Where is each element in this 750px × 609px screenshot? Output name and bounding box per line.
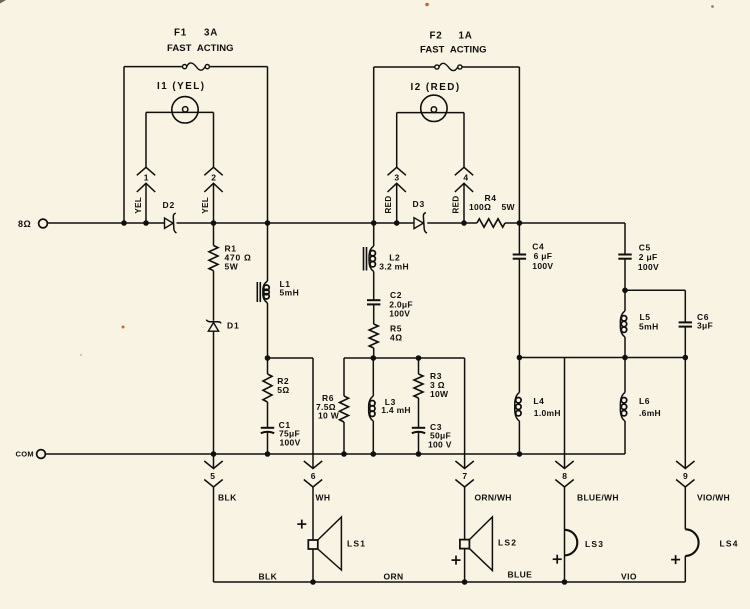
connector pin 2 lower chevron (204, 183, 222, 192)
resistor R6 designator (322, 393, 334, 403)
resistor R3 (414, 374, 423, 398)
svg-text:1.0mH: 1.0mH (534, 408, 561, 418)
wire tap1 upper (145, 112, 147, 167)
svg-text:YEL: YEL (134, 197, 143, 214)
svg-text:5W: 5W (502, 202, 516, 212)
wire L2 to C2 (373, 272, 375, 301)
wire tap7 to LS2 (464, 487, 466, 540)
connector pin 8 lower chevron (555, 480, 573, 488)
wire tap7 vertical (464, 358, 466, 469)
wire label BLUE bottom (508, 570, 533, 580)
connector pin 2 upper chevron (204, 167, 222, 175)
fuse F1 (183, 63, 210, 70)
wire label ORN/WH (475, 493, 512, 503)
inductor L5 designator (640, 312, 651, 322)
svg-text:LS2: LS2 (498, 538, 517, 548)
svg-text:L6: L6 (639, 396, 650, 406)
wire R3 to C3 (418, 398, 420, 428)
capacitor C1 value (279, 429, 301, 448)
inductor L5 (620, 311, 626, 337)
junction COM x418 (416, 451, 422, 457)
svg-text:1A: 1A (459, 31, 473, 42)
wire C6 to node (684, 327, 686, 358)
svg-text:3.2 mH: 3.2 mH (379, 261, 409, 271)
wire C3 to COM (418, 433, 420, 454)
resistor R3 value (430, 380, 449, 399)
wire tap6 vertical (312, 358, 314, 469)
junction bottom x464 (462, 579, 468, 585)
svg-text:5Ω: 5Ω (277, 385, 290, 395)
lamp I1 (172, 97, 198, 123)
svg-text:3μF: 3μF (697, 320, 713, 330)
wire tap2 upper (213, 112, 215, 167)
connector pin 7 lower chevron (455, 480, 473, 488)
svg-text:LS3: LS3 (585, 539, 604, 549)
svg-text:100V: 100V (638, 262, 659, 272)
wire R1 top lead (213, 223, 215, 246)
wire F2 top left segment (374, 66, 435, 68)
svg-text:D2: D2 (163, 200, 175, 210)
svg-text:3A: 3A (204, 28, 218, 39)
connector pin 5 upper chevron (204, 461, 222, 469)
svg-text:5mH: 5mH (280, 288, 300, 298)
resistor R4 designator (485, 193, 497, 203)
resistor R5 designator (390, 323, 402, 333)
F1 designator label (174, 28, 218, 39)
svg-text:8: 8 (562, 471, 567, 481)
inductor L6 (620, 393, 626, 422)
wire L5 top lead (624, 290, 626, 311)
wire R2 to C1 (267, 402, 269, 428)
resistor R5 value (390, 333, 403, 343)
wire lamp I1 chord (146, 111, 214, 113)
resistor R5 (369, 324, 378, 348)
svg-text:F2: F2 (430, 31, 443, 42)
resistor R2 value (277, 385, 290, 395)
pin 9 label (683, 471, 688, 481)
connector pin 3 lower chevron (388, 183, 406, 192)
connector pin 1 upper chevron (137, 167, 155, 175)
wire C1 to COM (267, 433, 269, 454)
lamp I2 label (411, 82, 461, 93)
capacitor C3 value (428, 431, 452, 450)
speaker LS4 label (720, 539, 739, 549)
connector pin 1 lower chevron (137, 183, 155, 192)
svg-text:BLK: BLK (218, 493, 237, 503)
svg-text:100Ω: 100Ω (469, 202, 491, 212)
wire C5 to link node (624, 259, 626, 291)
wire link C5-C6 horizontal (625, 289, 685, 291)
connector pin 6 lower chevron (304, 480, 322, 488)
pin 8 label (562, 471, 567, 481)
svg-text:LS4: LS4 (720, 539, 739, 549)
svg-text:100 V: 100 V (428, 439, 452, 449)
junction COM x373 (371, 451, 377, 457)
wire label VIO/WH (697, 493, 730, 503)
svg-text:BLUE/WH: BLUE/WH (577, 493, 619, 503)
junction main bus x464 (461, 220, 467, 226)
wire C4 top lead (518, 223, 520, 255)
svg-text:.6mH: .6mH (639, 408, 661, 418)
wire label ORN bottom (384, 572, 404, 582)
junction main bus x519 (517, 220, 523, 226)
svg-text:2 μF: 2 μF (639, 252, 658, 262)
svg-text:4Ω: 4Ω (390, 333, 403, 343)
wire L3 to COM (372, 421, 374, 454)
resistor R2 (263, 374, 272, 402)
F2 value label FAST ACTING (420, 45, 487, 56)
wire L3 top lead (372, 358, 374, 396)
wire L1 top lead (267, 223, 269, 281)
capacitor C3 designator (430, 422, 442, 432)
resistor R4 value (469, 202, 516, 212)
wire node A horizontal (268, 357, 314, 359)
junction main bus x213 (211, 220, 217, 226)
wire tap2 lower (213, 183, 215, 223)
svg-text:100V: 100V (532, 261, 553, 271)
svg-text:I1 (YEL): I1 (YEL) (157, 81, 205, 92)
wire main bus left (48, 222, 165, 224)
pin 4 label (463, 172, 468, 182)
svg-text:3: 3 (394, 172, 399, 182)
svg-text:WH: WH (316, 493, 331, 503)
junction link node x625 (622, 288, 628, 294)
lamp I1 label (157, 81, 205, 92)
wire label BLUE/WH (577, 493, 619, 503)
connector pin 9 upper chevron (676, 461, 694, 469)
junction COM x519 (517, 451, 523, 457)
inductor L3 (369, 396, 375, 421)
capacitor C1 (261, 428, 274, 433)
wire tap8 vertical (564, 358, 566, 469)
svg-text:D1: D1 (227, 321, 239, 331)
svg-text:F1: F1 (174, 28, 187, 39)
terminal 8-ohm label (18, 219, 31, 229)
wire F2 right leg (518, 67, 520, 223)
svg-text:BLK: BLK (259, 572, 278, 582)
inductor L4 value (534, 408, 561, 418)
wire L5 to node (624, 337, 626, 358)
svg-text:ORN: ORN (384, 572, 404, 582)
wire tap4 upper (463, 113, 465, 168)
wire label BLK (218, 493, 237, 503)
junction node A x267 (265, 355, 271, 361)
junction node B x373 (371, 355, 377, 361)
speaker LS1 label (347, 539, 366, 549)
svg-text:5mH: 5mH (639, 322, 659, 332)
svg-text:FAST ACTING: FAST ACTING (167, 43, 234, 54)
svg-text:BLUE: BLUE (508, 570, 533, 580)
junction COM x344 (341, 451, 347, 457)
capacitor C5 designator (639, 243, 651, 253)
svg-text:5: 5 (210, 471, 215, 481)
resistor R1 value (225, 253, 252, 272)
inductor L5 value (639, 322, 659, 332)
wire tap9 vertical (684, 358, 686, 469)
connector pin 7 upper chevron (455, 461, 473, 469)
inductor L6 designator (639, 396, 650, 406)
svg-text:6 μF: 6 μF (534, 251, 553, 261)
wire label YEL pin1 (134, 197, 143, 214)
svg-text:RED: RED (384, 195, 393, 213)
connector pin 4 lower chevron (455, 183, 473, 192)
svg-text:9: 9 (683, 471, 688, 481)
junction right node x519 (517, 355, 523, 361)
paper speck dark top-right (711, 5, 714, 8)
wire L2 top lead (373, 223, 375, 246)
capacitor C4 (513, 255, 526, 259)
inductor L3 value (381, 405, 411, 415)
connector pin 5 lower chevron (204, 480, 222, 488)
speaker LS1 plus mark (297, 520, 306, 529)
svg-text:1.4 mH: 1.4 mH (381, 405, 411, 415)
inductor L2 designator (389, 253, 400, 263)
junction right node x625 (622, 355, 628, 361)
capacitor C6 value (697, 320, 713, 330)
wire tap4 lower (463, 183, 465, 223)
svg-text:COM: COM (16, 450, 34, 459)
capacitor C5 (618, 255, 631, 259)
wire LS2 bottom lead (464, 549, 466, 582)
wire node B horizontal (344, 357, 465, 359)
wire label RED pin3 (384, 195, 393, 213)
pin 2 label (211, 172, 216, 182)
svg-text:100V: 100V (389, 309, 410, 319)
wire C2 to R5 (373, 304, 375, 324)
wire tap1 lower (145, 183, 147, 223)
junction main bus x373 (371, 220, 377, 226)
wire C4 to node (518, 259, 520, 358)
speaker LS4 (685, 529, 698, 556)
wire L6 top lead (624, 358, 626, 393)
wire label BLK bottom (259, 572, 278, 582)
svg-text:RED: RED (451, 195, 460, 213)
pin 1 label (144, 172, 149, 182)
wire lamp I2 chord (397, 112, 464, 114)
pin 6 label (311, 471, 316, 481)
diode D2 label (163, 200, 175, 210)
wire L6 to COM (624, 421, 626, 454)
wire main bus right (505, 222, 625, 224)
wire right node horizontal (519, 357, 685, 359)
wire tap8 to bottom (564, 487, 566, 582)
terminal 8-ohm (39, 219, 48, 228)
capacitor C3 (412, 428, 425, 433)
svg-text:LS1: LS1 (347, 539, 366, 549)
resistor R6 value (316, 402, 340, 421)
diode D1 label (227, 321, 239, 331)
diode D2 (165, 213, 177, 233)
inductor L1 designator (280, 279, 291, 289)
wire main bus corner to C5 (624, 223, 626, 255)
paper corner mark (0, 0, 6, 4)
speaker LS1 (308, 517, 341, 570)
speaker LS2 (460, 517, 493, 571)
F2 designator label (430, 31, 473, 42)
F1 value label FAST ACTING (167, 43, 234, 54)
junction bottom x564 (562, 579, 568, 585)
svg-text:10 W: 10 W (318, 411, 340, 421)
diode D3 label (413, 199, 425, 209)
speaker LS4 plus mark (671, 555, 680, 564)
wire COM bus (46, 453, 625, 455)
wire label WH (316, 493, 331, 503)
junction main bus x396 (394, 220, 400, 226)
svg-text:FAST ACTING: FAST ACTING (420, 45, 487, 56)
junction main bus x124 (121, 220, 127, 226)
svg-text:L5: L5 (640, 312, 651, 322)
wire tap3 upper (396, 113, 398, 168)
wire C6 top lead (684, 290, 686, 322)
wire R6 top lead (343, 358, 345, 396)
wire F1 left leg (123, 67, 125, 223)
svg-text:D3: D3 (413, 199, 425, 209)
junction node B x418 (416, 355, 422, 361)
wire L4 top lead (518, 358, 520, 393)
capacitor C2 designator (390, 290, 402, 300)
pin 5 label (210, 471, 215, 481)
svg-text:5W: 5W (225, 262, 239, 272)
connector pin 4 upper chevron (455, 167, 473, 175)
speaker LS2 plus mark (452, 556, 461, 565)
connector pin 9 lower chevron (676, 480, 694, 488)
svg-text:7: 7 (462, 471, 467, 481)
pin 7 label (462, 471, 467, 481)
wire bottom return (214, 581, 686, 583)
pin 3 label (394, 172, 399, 182)
inductor L4 designator (533, 396, 544, 406)
svg-text:100V: 100V (280, 437, 301, 447)
resistor R1 designator (225, 244, 237, 254)
connector pin 6 upper chevron (304, 461, 322, 469)
wire tap5 down (213, 487, 215, 582)
wire tap6 to LS1 (312, 487, 314, 540)
svg-text:6: 6 (311, 471, 316, 481)
paper speck red left (80, 326, 125, 357)
wire F1 right leg (267, 67, 269, 223)
wire R6 to COM (343, 422, 345, 454)
capacitor C2 value (389, 299, 413, 318)
wire D1 to COM (213, 331, 215, 454)
svg-text:VIO/WH: VIO/WH (697, 493, 730, 503)
junction COM x267 (265, 451, 271, 457)
svg-text:VIO: VIO (621, 572, 637, 582)
svg-text:ORN/WH: ORN/WH (475, 493, 512, 503)
junction main bus x267 (265, 220, 271, 226)
svg-text:1: 1 (144, 172, 149, 182)
terminal COM (37, 450, 46, 459)
wire R2 top lead (267, 358, 269, 374)
inductor L2 (364, 246, 376, 272)
svg-text:4: 4 (463, 172, 468, 182)
junction main bus x146 (143, 220, 149, 226)
resistor R4 (477, 219, 505, 227)
wire main bus D3 to R4 (427, 222, 477, 224)
capacitor C2 (367, 300, 380, 304)
wire tap5 vertical (213, 454, 215, 469)
wire F2 top right segment (462, 66, 519, 68)
wire LS1 bottom lead (312, 549, 314, 582)
speaker LS3 (565, 530, 578, 556)
wire label YEL pin2 (201, 197, 210, 214)
wire F1 top left segment (124, 66, 183, 68)
resistor R1 (209, 246, 218, 271)
capacitor C4 value (532, 251, 553, 271)
wire label VIO bottom (621, 572, 637, 582)
resistor R6 (340, 396, 349, 422)
wire LS4 bottom lead (684, 556, 686, 582)
speaker LS3 plus mark (553, 555, 562, 564)
svg-text:10W: 10W (430, 389, 449, 399)
wire R3 top lead (418, 358, 420, 374)
junction COM x213 (211, 451, 217, 457)
diode D1 (206, 320, 221, 332)
wire R5 to node (373, 348, 375, 358)
wire main bus D2 to node (177, 222, 415, 224)
paper speck red top (425, 3, 429, 7)
wire R1 to D1 (213, 271, 215, 321)
capacitor C6 designator (697, 312, 709, 322)
wire tap3 lower (396, 183, 398, 223)
inductor L2 value (379, 261, 409, 271)
inductor L1 (257, 281, 269, 303)
svg-text:2: 2 (211, 172, 216, 182)
resistor R3 designator (430, 371, 442, 381)
diode D3 (414, 213, 427, 234)
svg-text:YEL: YEL (201, 197, 210, 214)
svg-text:I2 (RED): I2 (RED) (411, 82, 461, 93)
svg-text:L4: L4 (533, 396, 544, 406)
inductor L1 value (280, 288, 300, 298)
wire F1 top right segment (209, 66, 267, 68)
inductor L6 value (639, 408, 661, 418)
wire L4 to COM (518, 421, 520, 454)
capacitor C6 (679, 322, 692, 326)
capacitor C4 designator (532, 242, 544, 252)
connector pin 3 upper chevron (388, 167, 406, 175)
junction bottom x313 (310, 579, 316, 585)
speaker LS3 label (585, 539, 604, 549)
terminal COM label (16, 450, 34, 459)
wire label RED pin4 (451, 195, 460, 213)
resistor R2 designator (277, 376, 289, 386)
connector pin 8 upper chevron (555, 461, 573, 469)
capacitor C1 designator (279, 420, 291, 430)
wire F2 left leg (373, 67, 375, 223)
wire tap9 to LS4 (684, 487, 686, 529)
wire L1 to node (267, 303, 269, 358)
junction right node x685 (683, 355, 689, 361)
fuse F2 (435, 63, 462, 70)
speaker LS2 label (498, 538, 517, 548)
lamp I2 (421, 95, 447, 121)
inductor L4 (515, 393, 521, 422)
inductor L3 designator (385, 397, 396, 407)
svg-text:8Ω: 8Ω (18, 219, 31, 229)
capacitor C5 value (638, 252, 659, 272)
